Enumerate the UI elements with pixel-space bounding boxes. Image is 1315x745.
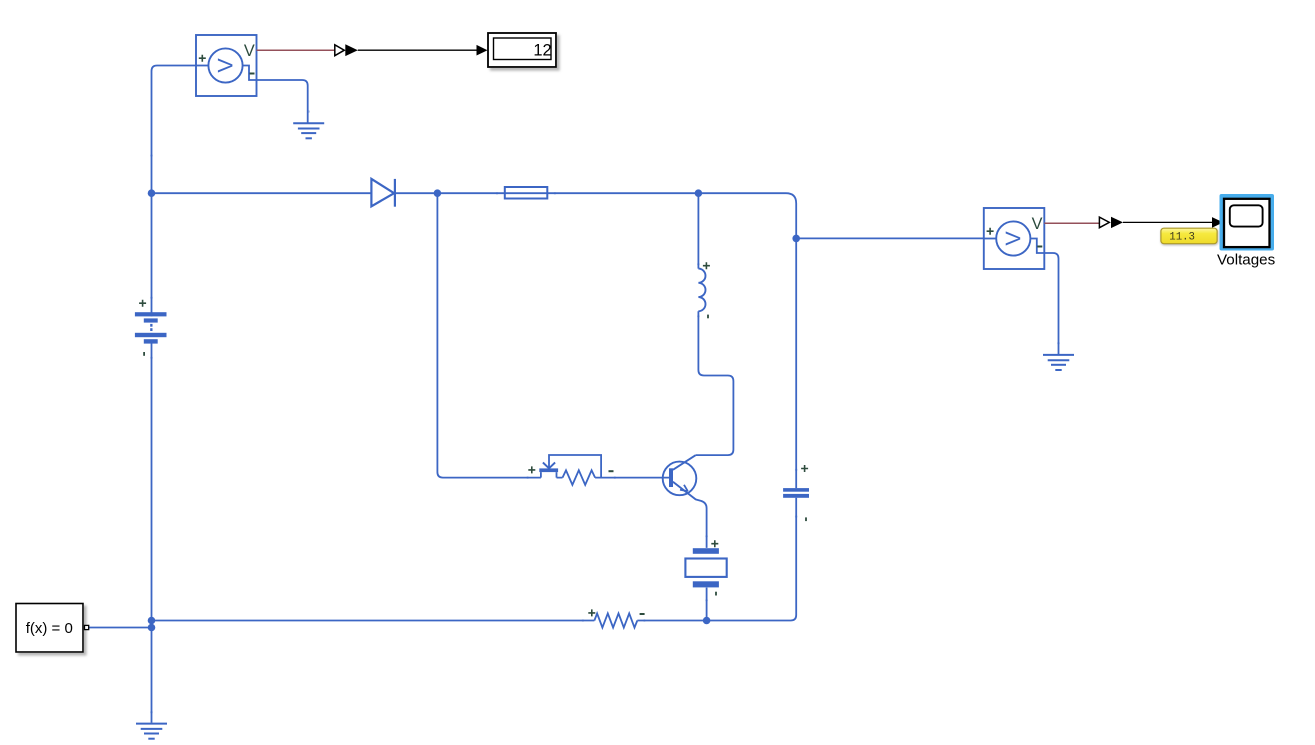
battery B1 DC voltage source (135, 300, 167, 356)
solver configuration block f(x)=0 (16, 604, 89, 653)
junction node left rail at solver wire (148, 624, 156, 632)
ground G2 (1043, 355, 1074, 370)
capacitor C1 bottom plate (783, 494, 809, 498)
battery B1 plus label (139, 300, 146, 307)
transistor Q1 base bar (669, 468, 673, 487)
potentiometer P1 zigzag (563, 470, 596, 485)
wire bottom bus from resistor R1 + to left rail (152, 620, 595, 622)
wire from voltage sensor VS1 + port down left rail to ground G3 (152, 66, 197, 317)
potentiometer P1 (528, 455, 613, 485)
resistor R1 (588, 609, 644, 627)
signal value label 11.3 (1161, 228, 1217, 244)
PS-Simulink converter hollow arrow (335, 45, 345, 56)
inductor L1 coil (698, 269, 705, 312)
battery B1 long plate top (135, 312, 167, 316)
svg-text:V: V (213, 58, 237, 73)
resistor R1 plus label (588, 609, 595, 616)
inductor L1 plus label (703, 262, 710, 269)
potentiometer P1 minus label (609, 470, 614, 472)
signal start solid arrow (345, 44, 358, 56)
wire from transistor Q1 emitter to battery B2 + (696, 499, 707, 548)
wire from solver block f(x)=0 to left rail (89, 627, 152, 629)
battery B2 plus label (711, 540, 718, 547)
wire from right rail node to voltage sensor VS2 + port (796, 237, 984, 239)
scope body (1224, 199, 1270, 247)
wire from diode node down to potentiometer P1 + (437, 193, 541, 477)
scope selection highlight (1220, 194, 1275, 251)
physical signal line from VS1 V port (257, 49, 335, 51)
display block showing 12 (488, 33, 556, 67)
junction node on top bus at left rail (148, 189, 156, 197)
diode D1 cathode bar (394, 179, 396, 207)
wire top bus from left rail to diode D1 anode (152, 192, 372, 194)
wire right rail from capacitor C1 - down to bottom bus to left rail (637, 498, 796, 621)
transistor Q1 emitter lead (673, 482, 696, 500)
battery B2 top electrode (693, 548, 719, 554)
transistor Q1 NPN (663, 455, 697, 499)
wire from inductor L1 - to transistor Q1 collector (696, 311, 734, 455)
voltage sensor VS1 body square (196, 35, 257, 96)
voltage sensor VS1 left stub (196, 65, 208, 67)
svg-text:V: V (1032, 215, 1043, 233)
potentiometer P1 wiper step right (557, 472, 563, 478)
signal arrowhead at scope (1212, 217, 1223, 228)
scope block Voltages (1217, 194, 1276, 269)
potentiometer P1 wiper step left (540, 472, 542, 478)
battery B1 minus label (143, 352, 145, 356)
capacitor C1 minus label (805, 517, 807, 521)
battery B1 short plate bottom (144, 339, 158, 343)
potentiometer P1 wiper bar (539, 468, 558, 472)
wire from voltage sensor VS1 - port to ground G1 (257, 80, 308, 123)
junction node left rail at bottom bus (148, 617, 156, 625)
wire left rail below battery B1 (151, 343, 153, 722)
signal arrowhead at display block (477, 45, 488, 56)
potentiometer P1 plus label (528, 466, 535, 473)
fuse F1 (505, 187, 548, 199)
voltage sensor VS2 plus label (987, 228, 994, 235)
junction node at inductor branch (695, 189, 703, 197)
capacitor C1 plus label (801, 465, 808, 472)
potentiometer P1 wiper loop (549, 455, 601, 478)
svg-text:V: V (1001, 231, 1025, 246)
transistor Q1 emitter arrow (680, 485, 688, 491)
voltage sensor VS1 plus label (199, 55, 206, 62)
signal line to display block (358, 49, 478, 51)
inductor L1 minus label (707, 315, 709, 319)
transistor Q1 body circle (663, 462, 697, 496)
junction node at battery B2 bottom (703, 617, 711, 625)
battery B2 (685, 540, 726, 595)
signal line to scope (1123, 221, 1213, 223)
voltage sensor VS2 left stub (984, 238, 996, 240)
resistor R1 minus label (640, 613, 645, 615)
voltage sensor VS2 body square (984, 208, 1045, 269)
battery B1 long plate bottom (135, 333, 167, 337)
voltage sensor VS2 minus label (1037, 246, 1042, 248)
voltage sensor VS1 (196, 35, 257, 96)
voltage sensor VS1 minus label (250, 73, 255, 75)
wire from voltage sensor VS2 - port to ground G2 (1044, 253, 1058, 355)
voltage sensor VS1 circle (208, 48, 242, 82)
svg-text:Voltages: Voltages (1217, 252, 1276, 269)
resistor R1 zigzag (594, 613, 637, 627)
battery B1 dashed cell gap (150, 324, 152, 327)
battery B2 bottom electrode (693, 581, 719, 587)
ground G3 (136, 724, 167, 739)
junction node after diode D1 (434, 189, 442, 197)
capacitor C1 top plate (783, 488, 809, 492)
wire from potentiometer P1 - to transistor Q1 base (595, 477, 669, 479)
voltage sensor VS1 internal step to minus port (243, 66, 257, 81)
svg-text:V: V (244, 42, 255, 60)
transistor Q1 collector lead (673, 455, 696, 470)
signal start solid arrow 2 (1111, 217, 1123, 228)
scope screen (1230, 205, 1263, 226)
svg-text:f(x) = 0: f(x) = 0 (26, 620, 73, 637)
PS-Simulink converter hollow arrow 2 (1099, 217, 1109, 228)
battery B2 minus label (715, 592, 717, 596)
svg-text:12: 12 (533, 41, 551, 59)
svg-text:11.3: 11.3 (1169, 232, 1195, 244)
voltage sensor VS2 (984, 208, 1045, 269)
solver block port square (85, 625, 89, 629)
battery B1 short plate top (144, 318, 158, 322)
diode D1 (371, 179, 395, 207)
ground G1 (293, 123, 324, 138)
potentiometer P1 wiper arrowhead (543, 463, 555, 469)
voltage sensor VS2 circle (996, 221, 1030, 255)
capacitor C1 (783, 465, 809, 521)
wire from diode D1 cathode through fuse F1 to right rail down to capacitor C1 + (396, 193, 796, 488)
faint block port markers (150, 110, 1060, 713)
battery B2 cell box (685, 559, 726, 577)
wire from battery B2 - to bottom bus node (706, 588, 708, 621)
voltage sensor VS2 internal step to minus port (1030, 239, 1044, 254)
wire from top bus node down to inductor L1 + (697, 193, 699, 268)
junction node on right rail to sensor VS2 (792, 235, 800, 243)
physical signal line from VS2 V port (1044, 222, 1099, 224)
diode D1 triangle (371, 179, 394, 206)
